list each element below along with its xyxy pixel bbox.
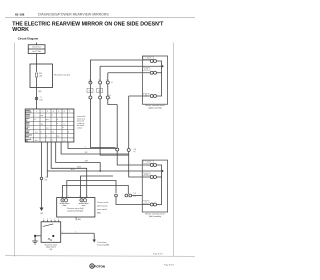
svg-text:L 0.5 W: L 0.5 W: [146, 162, 152, 164]
svg-text:Page 8 of 8: Page 8 of 8: [153, 254, 163, 256]
svg-text:up: up: [26, 120, 28, 122]
svg-text:(78): (78): [40, 213, 44, 215]
svg-text:o-o: o-o: [41, 123, 43, 125]
svg-text:lamp assy (8M): lamp assy (8M): [97, 244, 109, 246]
svg-text:(left) assembly: (left) assembly: [149, 215, 161, 218]
svg-text:Page 8 of 8: Page 8 of 8: [164, 265, 174, 267]
svg-text:10: 10: [107, 80, 109, 82]
svg-text:(G): (G): [45, 179, 48, 181]
svg-text:(right) assembly: (right) assembly: [148, 106, 161, 109]
svg-text:Connect to the: Connect to the: [97, 201, 108, 204]
svg-text:o-o: o-o: [35, 132, 37, 134]
svg-text:right rearview: right rearview: [97, 205, 108, 208]
svg-text:L 0.5 W: L 0.5 W: [146, 58, 152, 60]
svg-text:o-o: o-o: [35, 140, 37, 142]
svg-text:(M): (M): [50, 249, 53, 251]
svg-text:0.5: 0.5: [145, 202, 147, 204]
svg-text:line: line: [26, 140, 29, 142]
svg-text:B-Gr: B-Gr: [71, 168, 75, 171]
svg-text:o-o: o-o: [52, 132, 54, 134]
svg-text:(1A): (1A): [38, 90, 42, 93]
svg-text:(8M): (8M): [97, 213, 101, 215]
svg-text:BrW: BrW: [78, 165, 82, 168]
svg-text:DIAGNOSIS/POWER REARVIEW MIRRO: DIAGNOSIS/POWER REARVIEW MIRRORS: [38, 13, 109, 17]
svg-text:(14): (14): [40, 99, 44, 101]
svg-text:62-108: 62-108: [15, 13, 25, 17]
svg-text:down: down: [26, 124, 30, 126]
svg-text:0.5: 0.5: [145, 95, 147, 97]
svg-text:o-o: o-o: [46, 119, 48, 121]
svg-text:G-2: G-2: [98, 90, 101, 92]
svg-text:mirror switch: mirror switch: [97, 208, 107, 211]
svg-text:FOTON: FOTON: [95, 264, 105, 268]
svg-text:feed: feed: [26, 136, 29, 138]
svg-text:(8M): (8M): [77, 219, 81, 221]
svg-text:1 B: 1 B: [109, 95, 111, 97]
svg-text:o-o: o-o: [46, 127, 48, 129]
svg-text:o-o: o-o: [57, 136, 59, 138]
svg-text:F5b: F5b: [39, 73, 42, 75]
svg-text:YW: YW: [85, 152, 88, 154]
svg-text:(up/down) (left/right): (up/down) (left/right): [67, 209, 83, 212]
svg-text:Electrical fuse box: Electrical fuse box: [54, 74, 70, 77]
svg-text:o-o: o-o: [41, 115, 43, 117]
svg-text:3 L: 3 L: [111, 82, 113, 84]
svg-text:THE ELECTRIC REARVIEW MIRROR O: THE ELECTRIC REARVIEW MIRROR ON ONE SIDE…: [12, 21, 164, 27]
svg-text:WORK: WORK: [12, 27, 29, 33]
svg-text:Circuit Diagram: Circuit Diagram: [18, 37, 39, 41]
svg-text:G-1: G-1: [89, 90, 92, 92]
